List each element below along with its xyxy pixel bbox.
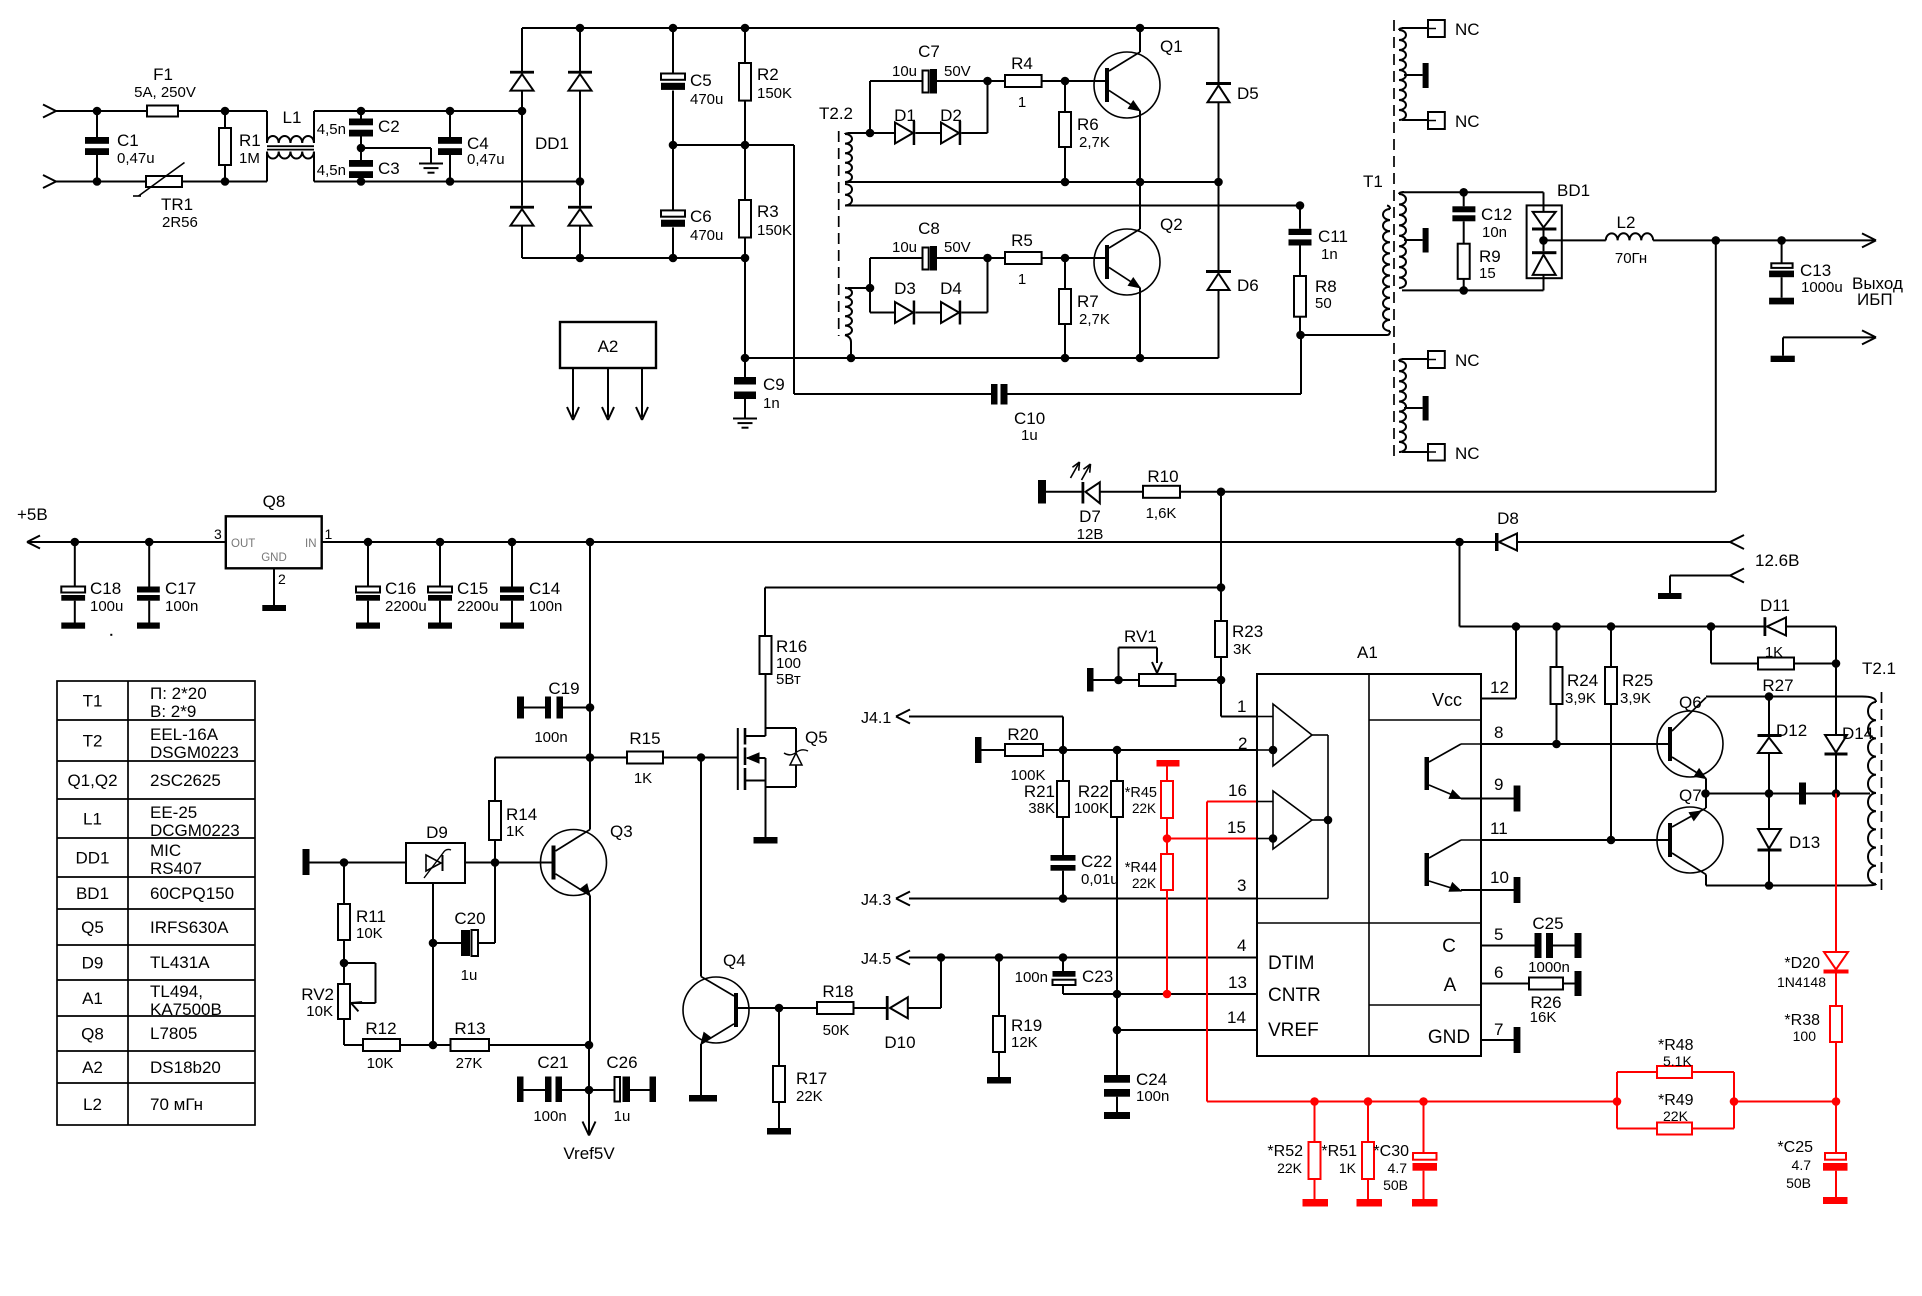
wire pin1 into amp1 [1257, 716, 1273, 718]
transistor Q7 [1657, 807, 1723, 873]
svg-text:*D20: *D20 [1784, 955, 1820, 972]
node rail / C19 riser [586, 538, 595, 547]
svg-text:Q6: Q6 [1679, 693, 1702, 712]
wire aux winding bottom to NC [1402, 119, 1428, 121]
node red bus / R52 [1310, 1097, 1319, 1106]
svg-text:R9: R9 [1479, 247, 1501, 266]
node output / C13 [1777, 236, 1786, 245]
DD1 left leg wire [521, 28, 523, 71]
node pin13 / R44 riser [1163, 990, 1172, 999]
svg-text:KA7500B: KA7500B [150, 1000, 222, 1019]
A1 error amp 1 [1273, 704, 1312, 766]
svg-text:R25: R25 [1622, 671, 1653, 690]
wire J4.1 [909, 716, 1063, 718]
riser D10 to J4.5 line [940, 958, 942, 1009]
svg-text:*R44: *R44 [1125, 860, 1157, 876]
T2.2 core dashed line [838, 131, 840, 336]
svg-text:7: 7 [1494, 1020, 1503, 1039]
capacitor C18 [74, 542, 76, 587]
resistor R24 [1556, 627, 1558, 668]
riser R10 node down to R16/R23 line [1220, 492, 1222, 588]
node T2.2 top / C7 / D1 [866, 129, 875, 138]
svg-text:1: 1 [1237, 697, 1246, 716]
node red bus / R48 R49 left [1613, 1097, 1622, 1106]
wire bottom input to TR1 [56, 181, 146, 183]
svg-text:R7: R7 [1077, 292, 1099, 311]
svg-text:2,7K: 2,7K [1079, 311, 1110, 328]
node J4.3 / C22 [1059, 894, 1068, 903]
svg-text:Vref5V: Vref5V [563, 1144, 615, 1163]
svg-text:C16: C16 [385, 579, 416, 598]
NC terminal box 2 [1428, 112, 1445, 129]
wire D4 to C8 node [961, 312, 987, 314]
svg-text:Q8: Q8 [81, 1025, 104, 1044]
wire Vcc corner down to R27 [1835, 627, 1837, 664]
svg-text:10u: 10u [892, 239, 917, 256]
svg-text:70 мГн: 70 мГн [150, 1095, 203, 1114]
svg-text:NC: NC [1455, 444, 1480, 463]
node C4 bottom [446, 177, 455, 186]
svg-text:2: 2 [278, 571, 286, 587]
svg-text:D7: D7 [1079, 507, 1101, 526]
riser rail to Vcc distribution [1459, 542, 1461, 627]
svg-text:*R52: *R52 [1267, 1143, 1303, 1160]
svg-text:5: 5 [1494, 925, 1503, 944]
svg-text:C26: C26 [606, 1053, 637, 1072]
svg-text:J4.1: J4.1 [861, 710, 891, 727]
svg-text:Q8: Q8 [263, 492, 286, 511]
svg-text:15: 15 [1227, 818, 1246, 837]
svg-text:1u: 1u [1021, 427, 1038, 444]
node D11 / R27 / D14 [1832, 659, 1841, 668]
svg-text:12K: 12K [1011, 1034, 1038, 1051]
capacitor C8 [870, 257, 923, 259]
node secondary bottom / R9 [1459, 286, 1468, 295]
node line1 / R6 [1061, 178, 1070, 187]
capacitor C12 [1463, 192, 1465, 206]
svg-text:1: 1 [1018, 94, 1026, 111]
svg-text:100: 100 [776, 655, 801, 672]
node pin2 / R21 / J4.1 [1059, 746, 1068, 755]
wire L1 to bridge bottom [314, 181, 580, 183]
node Q7 collector / D13 [1765, 881, 1774, 890]
A1 output transistor 2 [1425, 853, 1430, 886]
svg-text:В: 2*9: В: 2*9 [150, 702, 196, 721]
wire lower aux bottom to NC [1402, 451, 1428, 453]
amp outputs feedback bus [1312, 734, 1328, 736]
svg-text:4,5n: 4,5n [317, 121, 346, 138]
svg-text:22K: 22K [1132, 801, 1156, 816]
capacitor C2 [360, 111, 362, 119]
resistor R2 [744, 28, 746, 63]
node R24 / pin8 line [1552, 740, 1561, 749]
capacitor C5 [672, 28, 674, 74]
svg-text:*C30: *C30 [1373, 1143, 1409, 1160]
wire aux winding top to NC [1402, 27, 1428, 29]
thermistor TR1 [146, 176, 182, 187]
node pin2 / R22 [1113, 746, 1122, 755]
svg-text:27K: 27K [456, 1055, 483, 1072]
wire R14 top line [495, 757, 627, 759]
output return terminal bar [1771, 356, 1795, 362]
resistor R16 [764, 588, 766, 637]
svg-text:50: 50 [1315, 295, 1332, 312]
node bridge left / AC input [518, 107, 527, 116]
svg-text:2,7K: 2,7K [1079, 134, 1110, 151]
DD1 diode bottom-right [568, 206, 592, 209]
wire pin11 inside [1461, 839, 1481, 841]
svg-text:CNTR: CNTR [1268, 985, 1321, 1006]
node Vcc line / R24 [1552, 622, 1561, 631]
svg-text:NC: NC [1455, 112, 1480, 131]
svg-text:D5: D5 [1237, 84, 1259, 103]
svg-text:C17: C17 [165, 579, 196, 598]
Q3 collector riser from rail [589, 542, 591, 830]
A1 internal dividers [1368, 674, 1370, 1056]
voltage regulator Q8 (L7805) [226, 516, 322, 568]
diode D10 [886, 996, 889, 1020]
wire lower aux top to NC [1402, 358, 1428, 360]
node emitter line / D12 D13 [1765, 789, 1774, 798]
svg-text:D13: D13 [1789, 833, 1820, 852]
capacitor C8 riser [869, 258, 871, 288]
wire lower winding bottom down [845, 335, 851, 358]
svg-text:Q4: Q4 [723, 951, 746, 970]
svg-text:GND: GND [1428, 1027, 1470, 1048]
capacitor C30 (red) [1423, 1102, 1425, 1154]
node J4.5 / R19 [995, 953, 1004, 962]
wire F1 to L1 [178, 110, 267, 112]
J4.3 arrow [896, 892, 910, 899]
node C7 / D2 / R4 [983, 77, 992, 86]
T1 secondary winding [1399, 194, 1406, 288]
svg-text:GND: GND [261, 552, 287, 564]
node C21 / C26 / Vref arrow [585, 1086, 594, 1095]
svg-text:1K: 1K [1339, 1160, 1357, 1176]
svg-text:C3: C3 [378, 159, 400, 178]
svg-text:C18: C18 [90, 579, 121, 598]
svg-text:J4.5: J4.5 [861, 951, 891, 968]
svg-text:D6: D6 [1237, 276, 1259, 295]
ground stub from C2/C3 midpoint [361, 147, 431, 149]
svg-text:R13: R13 [454, 1019, 485, 1038]
pin9 terminal bar [1514, 786, 1521, 812]
node C2 top [357, 107, 366, 116]
diode D13 [1768, 794, 1770, 830]
node emitter line / D14 / D20 [1832, 789, 1841, 798]
resistor R15 [627, 752, 663, 764]
node C2/C3 midpoint [357, 144, 366, 153]
svg-text:R17: R17 [796, 1069, 827, 1088]
wire pin3 inside [1257, 898, 1328, 900]
svg-text:50V: 50V [944, 63, 971, 80]
svg-text:16: 16 [1228, 781, 1247, 800]
svg-text:1: 1 [1018, 271, 1026, 288]
resistor R11 [343, 863, 345, 905]
svg-text:9: 9 [1494, 775, 1503, 794]
svg-text:10: 10 [1490, 868, 1509, 887]
svg-text:D3: D3 [894, 279, 916, 298]
T1 primary winding [1387, 206, 1390, 210]
A2 lead 1 [572, 368, 574, 417]
node bottom line / R7 [1061, 354, 1070, 363]
svg-text:3K: 3K [1233, 641, 1251, 658]
svg-text:NC: NC [1455, 20, 1480, 39]
svg-text:A: A [1444, 975, 1457, 996]
svg-text:100n: 100n [533, 1108, 566, 1125]
capacitor C1 [96, 111, 98, 137]
svg-text:*R48: *R48 [1658, 1037, 1694, 1054]
svg-text:2SC2625: 2SC2625 [150, 771, 221, 790]
node Q4 base / R17 / R18 [775, 1004, 784, 1013]
svg-text:*C25: *C25 [1777, 1139, 1813, 1156]
wire T2.2 winding tap to line1 [845, 181, 870, 183]
resistor R48 (red) [1617, 1071, 1657, 1073]
node R16 line / R23 riser [1217, 583, 1226, 592]
svg-text:L2: L2 [1617, 213, 1636, 232]
node Vcc line / pin12 riser [1512, 622, 1521, 631]
A1 output transistor 1 [1425, 757, 1430, 790]
svg-text:BD1: BD1 [76, 884, 109, 903]
svg-text:22K: 22K [1132, 876, 1156, 891]
svg-text:C14: C14 [529, 579, 560, 598]
svg-text:2200u: 2200u [457, 598, 499, 615]
svg-text:16K: 16K [1530, 1009, 1557, 1026]
svg-text:IN: IN [305, 538, 317, 550]
svg-text:1u: 1u [461, 967, 478, 984]
+5V rail wire [27, 541, 226, 543]
svg-text:ИБП: ИБП [1857, 290, 1893, 309]
T1 lower auxiliary winding [1399, 361, 1406, 452]
node line1 / Q1 emitter [1136, 178, 1145, 187]
svg-text:C9: C9 [763, 375, 785, 394]
aux winding tap bar [1404, 74, 1423, 76]
DD1 diode top-left [510, 71, 534, 74]
earth ground symbol [419, 163, 443, 165]
svg-text:C22: C22 [1081, 852, 1112, 871]
svg-text:R8: R8 [1315, 277, 1337, 296]
common-mode choke L1 [266, 111, 268, 143]
svg-text:EEL-16A: EEL-16A [150, 725, 219, 744]
node rail / Q1 collector [1136, 24, 1145, 33]
D9 cathode riser down [432, 883, 434, 1045]
node rail / C18 [71, 538, 80, 547]
svg-text:2R56: 2R56 [162, 214, 198, 231]
capacitor C23 [1062, 958, 1064, 972]
diode D5 [1218, 28, 1220, 82]
svg-text:R3: R3 [757, 202, 779, 221]
diode D14 [1835, 664, 1837, 736]
resistor R51 (red) [1367, 1102, 1369, 1143]
svg-text:C10: C10 [1014, 409, 1045, 428]
capacitor C7 [870, 80, 923, 82]
LED D7 terminal bar [1038, 480, 1046, 504]
svg-text:T2: T2 [83, 732, 103, 751]
node T1 primary top / C11 [1296, 201, 1305, 210]
wire RV2 to R12 [343, 1019, 345, 1045]
wire J4.5 / pin4 DTIM [909, 957, 1257, 959]
node line1 / D5 D6 [1214, 178, 1223, 187]
svg-text:C11: C11 [1318, 227, 1348, 246]
capacitor C21 [524, 1089, 546, 1091]
T2.2 upper winding lower section [845, 184, 852, 206]
diode D20 (red) [1824, 952, 1848, 970]
svg-text:RV2: RV2 [301, 985, 334, 1004]
node R5 / R7 / Q2 base [1061, 254, 1070, 263]
wire pin16 (red) [1207, 801, 1257, 803]
controller A1 box [1257, 674, 1481, 1056]
wire to T1 primary bottom [1301, 334, 1388, 336]
node C9 top [741, 354, 750, 363]
svg-text:22K: 22K [1663, 1108, 1689, 1124]
node red bus / R48 R49 right [1730, 1097, 1739, 1106]
resistor R4 [988, 80, 1006, 82]
svg-text:T1: T1 [83, 692, 103, 711]
svg-text:R18: R18 [822, 982, 853, 1001]
svg-text:BD1: BD1 [1557, 181, 1590, 200]
dual schottky BD1 box [1527, 205, 1562, 278]
half-bridge midpoint wire [673, 144, 794, 146]
svg-text:38K: 38K [1028, 800, 1055, 817]
wire pin2 into amp1 [1257, 749, 1273, 751]
diode D6 [1218, 182, 1220, 270]
diode D8 [1495, 533, 1499, 551]
fuse F1 [147, 106, 178, 117]
input terminal top (mains L) [43, 111, 56, 118]
inductor L2 [1606, 233, 1653, 240]
svg-text:1000u: 1000u [1801, 279, 1843, 296]
svg-text:NC: NC [1455, 351, 1480, 370]
red bus to R38 node [1734, 1101, 1836, 1103]
svg-text:A2: A2 [598, 337, 619, 356]
svg-text:R1: R1 [239, 131, 261, 150]
node R4 / R6 / Q1 base [1061, 77, 1070, 86]
resistor R38 (red) [1830, 1006, 1842, 1042]
svg-text:60CPQ150: 60CPQ150 [150, 884, 234, 903]
J4.5 arrow [896, 951, 910, 958]
svg-text:D1: D1 [894, 106, 916, 125]
Q7 collector line to T2.1 bottom [1706, 885, 1862, 887]
svg-text:100K: 100K [1074, 800, 1109, 817]
node bottom line / Q2 emitter [1136, 354, 1145, 363]
svg-text:Q5: Q5 [805, 728, 828, 747]
svg-text:R4: R4 [1011, 54, 1033, 73]
red bus horizontal [1207, 1101, 1617, 1103]
svg-text:5Вт: 5Вт [776, 671, 801, 688]
T2.1 core dashed line [1881, 692, 1883, 890]
diode D12 [1768, 697, 1770, 735]
svg-text:1K: 1K [1765, 644, 1783, 661]
svg-text:10K: 10K [306, 1003, 333, 1020]
Vcc distribution line [1460, 626, 1764, 628]
svg-text:100n: 100n [1136, 1088, 1169, 1105]
LED D7 [1046, 491, 1082, 493]
wire R23 node to pin 1 [1220, 680, 1222, 717]
C26 terminal bar [650, 1077, 657, 1103]
node D9 line / R11 [340, 858, 349, 867]
node top input / C1 [93, 107, 102, 116]
svg-text:C15: C15 [457, 579, 488, 598]
node D9 line / R14 / C20 [491, 858, 500, 867]
resistor R23 [1220, 588, 1222, 622]
svg-text:L7805: L7805 [150, 1024, 197, 1043]
wire BD1 to L2 [1544, 239, 1606, 241]
svg-text:100n: 100n [165, 598, 198, 615]
node RV1 wiper loop [1114, 676, 1123, 685]
svg-text:C24: C24 [1136, 1070, 1167, 1089]
resistor R13 [451, 1039, 490, 1051]
svg-text:C1: C1 [117, 131, 139, 150]
svg-text:R27: R27 [1762, 676, 1793, 695]
svg-text:C19: C19 [548, 679, 579, 698]
svg-text:R15: R15 [629, 729, 660, 748]
NC terminal box 3 [1428, 351, 1445, 368]
R20 terminal bar [975, 737, 982, 763]
svg-text:TL494,: TL494, [150, 982, 203, 1001]
wire D9 left [310, 862, 407, 864]
module A2 (DS18b20) [560, 322, 656, 368]
svg-text:10K: 10K [356, 925, 383, 942]
svg-text:R2: R2 [757, 65, 779, 84]
bottom return line [745, 357, 1219, 359]
red bus riser [1206, 802, 1208, 1102]
R45 terminal bar [1157, 760, 1180, 767]
svg-text:DSGM0223: DSGM0223 [150, 743, 239, 762]
lower aux tap bar [1404, 407, 1423, 409]
svg-text:13: 13 [1228, 973, 1247, 992]
svg-text:3: 3 [214, 526, 222, 542]
svg-text:R24: R24 [1567, 671, 1598, 690]
node R11 / RV2 wiper [340, 959, 349, 968]
transistor Q6 [1657, 711, 1723, 777]
svg-text:1n: 1n [763, 395, 780, 412]
pin7 ground bar [1514, 1027, 1521, 1053]
wire pin2 feedback line [1063, 749, 1257, 751]
svg-text:50V: 50V [944, 239, 971, 256]
resistor R12 [363, 1039, 400, 1051]
node rail / C17 [145, 538, 154, 547]
node rail / 12V feed [1455, 538, 1464, 547]
svg-text:R23: R23 [1232, 622, 1263, 641]
T1 upper auxiliary winding [1399, 30, 1406, 120]
wire L1 to bridge top [314, 110, 522, 112]
resistor R52 (red) [1314, 1102, 1316, 1143]
svg-text:L2: L2 [83, 1095, 102, 1114]
svg-text:C12: C12 [1481, 205, 1512, 224]
node emitter line / Q6 Q7 [1701, 789, 1710, 798]
svg-text:4.7: 4.7 [1388, 1160, 1408, 1176]
node bottom input / C1 [93, 177, 102, 186]
capacitor C14 [511, 542, 513, 587]
svg-text:470u: 470u [690, 91, 723, 108]
wire line1 (midpoint to D5) [845, 181, 1219, 183]
wire pin15 into amp2 [1257, 838, 1273, 840]
Q4 emitter ground [700, 1044, 702, 1095]
node rail / C15 [436, 538, 445, 547]
resistor R10 [1143, 486, 1180, 498]
svg-text:MIC: MIC [150, 841, 181, 860]
node R2/R3 midpoint [741, 141, 750, 150]
svg-text:OUT: OUT [231, 538, 255, 550]
node secondary top / C12 [1459, 188, 1468, 197]
node output / feedback riser [1712, 236, 1721, 245]
MOSFET Q5 [737, 728, 739, 790]
capacitor C19 [524, 707, 545, 709]
12.6V return stub [1670, 575, 1730, 577]
svg-text:14: 14 [1227, 1008, 1246, 1027]
NC terminal box 1 [1428, 20, 1445, 37]
svg-text:R16: R16 [776, 637, 807, 656]
